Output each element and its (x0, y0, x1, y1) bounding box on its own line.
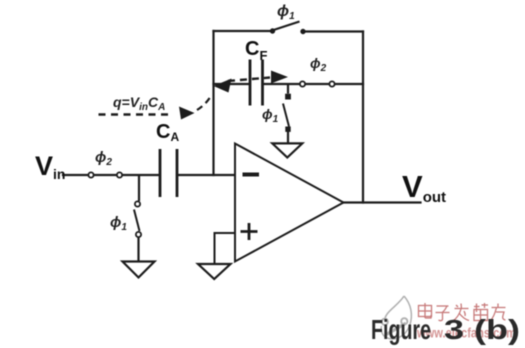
svg-text:q=VinCA: q=VinCA (113, 94, 165, 113)
wire input Vin to CA left plate (63, 174, 159, 176)
wire top right segment (305, 30, 364, 32)
charge dashed line through CF (228, 78, 270, 82)
char zi (437, 305, 449, 307)
wire top left segment (214, 30, 272, 32)
switch phi1 feedback-to-ground (283, 84, 290, 143)
wire right side of feedback loop (362, 32, 364, 203)
svg-text:Vout: Vout (402, 169, 446, 206)
char shao (474, 306, 480, 308)
wire feedback line left of CF (214, 83, 249, 85)
switch phi1 top (in feedback loop top wire) (270, 22, 305, 34)
ground (non-inverting input) (198, 264, 231, 279)
op-amp minus sign (243, 173, 260, 177)
svg-text:Vin: Vin (35, 151, 65, 182)
char dian (419, 306, 432, 317)
ground (feedback branch) (272, 143, 302, 157)
svg-text:ϕ2: ϕ2 (95, 149, 112, 168)
char you (492, 307, 506, 309)
ground (input branch) (123, 262, 155, 278)
charge arrowhead through CF (points right) (271, 71, 288, 84)
svg-text:ϕ2: ϕ2 (310, 55, 327, 74)
svg-text:CA: CA (156, 121, 179, 144)
wire CA right plate to op-amp inverting input (178, 174, 236, 176)
svg-text:Figure: Figure (371, 314, 431, 345)
svg-text:CF: CF (245, 38, 267, 63)
switch phi2 input (circles on input wire) (88, 172, 122, 177)
op-amp plus sign (241, 223, 258, 240)
capacitor CA (160, 149, 177, 197)
charge arrow dashed curve (197, 95, 212, 110)
charge arrowhead right (toward node) (179, 107, 195, 120)
svg-text:ϕ1: ϕ1 (262, 106, 279, 125)
svg-text:3 (b): 3 (b) (444, 314, 520, 345)
switch phi1 input-to-ground (134, 175, 141, 262)
wire feedback line right of CF (263, 83, 363, 85)
wire output (344, 201, 421, 203)
capacitor CF (250, 60, 263, 106)
logo elecfans grey mark (381, 296, 411, 339)
charge arrow dashed line from q label (99, 113, 173, 115)
svg-text:ϕ1: ϕ1 (277, 3, 295, 22)
op-amp U1 (235, 144, 344, 262)
watermark chinese characters (drawn) (419, 303, 506, 321)
wire non-inverting input to ground (215, 233, 236, 264)
char fa (455, 308, 469, 310)
switch phi2 feedback (circles on feedback wire) (300, 81, 335, 86)
charge arrowhead into summing node (points left) (214, 79, 232, 93)
wire summing node vertical (left side of feedback loop) (212, 31, 214, 175)
svg-text:ϕ1: ϕ1 (110, 214, 127, 233)
